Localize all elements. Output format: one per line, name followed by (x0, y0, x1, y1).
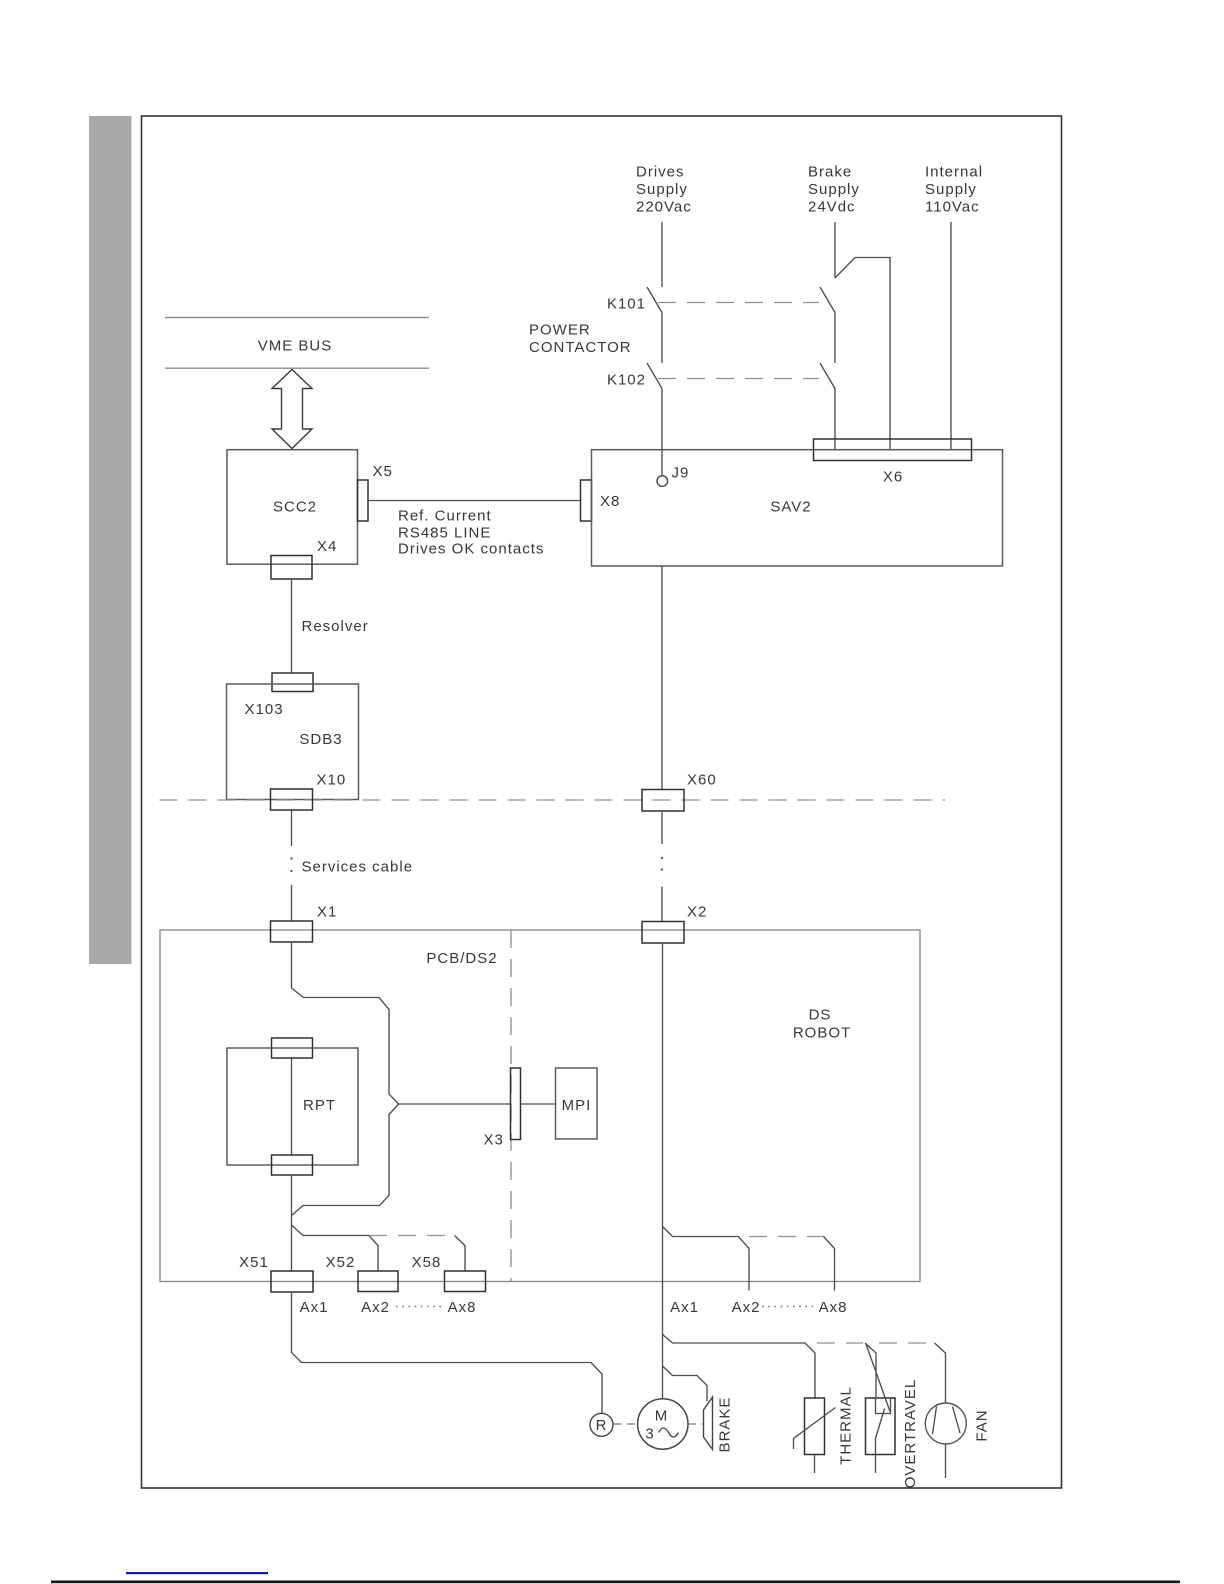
dashed link R to motor (614, 1423, 638, 1425)
wire: branch to fan (935, 1343, 946, 1403)
svg-text:Drives: Drives (636, 164, 685, 181)
svg-text:Ref. Current: Ref. Current (398, 508, 492, 525)
svg-text:X10: X10 (317, 772, 347, 789)
wire: services cable lower to X1 (291, 885, 293, 921)
motor M1 circle (638, 1399, 688, 1449)
connector X3 (511, 1068, 521, 1140)
dashed divider PCB/DS2 (510, 930, 512, 1282)
wire: K101 to K102 (661, 313, 663, 364)
connector X103 (272, 673, 313, 692)
dashed bus to fan (879, 1342, 935, 1344)
wire: K102 to J9 (661, 389, 663, 476)
svg-text:THERMAL: THERMAL (838, 1386, 855, 1465)
svg-text:110Vac: 110Vac (925, 199, 980, 216)
connector X2 (642, 922, 684, 944)
svg-text:Ax2: Ax2 (361, 1299, 390, 1316)
svg-text:3: 3 (645, 1426, 654, 1443)
svg-text:Internal: Internal (925, 164, 983, 181)
svg-text:Resolver: Resolver (302, 618, 369, 635)
overtravel actuator diagonal (866, 1344, 890, 1412)
svg-text:Services cable: Services cable (302, 859, 414, 876)
svg-text:RS485 LINE: RS485 LINE (398, 525, 491, 542)
bus line VME lower (165, 367, 429, 369)
svg-text:Supply: Supply (808, 181, 860, 198)
svg-text:M: M (655, 1408, 669, 1425)
svg-text:X3: X3 (484, 1132, 504, 1149)
connector X4 (271, 556, 312, 580)
svg-text:ROBOT: ROBOT (793, 1025, 851, 1042)
wire: X60 down (661, 811, 663, 844)
contactor contact K101 (brake) (820, 287, 835, 313)
dotted ellipsis left (396, 1306, 441, 1308)
wire: branch to Ax2 right (663, 1227, 750, 1291)
svg-text:X6: X6 (883, 469, 903, 486)
connector X6 bar (814, 439, 972, 461)
wire: brace point to X3 (399, 1103, 511, 1105)
fan circle (925, 1403, 966, 1444)
svg-text:24Vdc: 24Vdc (808, 199, 856, 216)
svg-text:X8: X8 (600, 493, 620, 510)
svg-text:RPT: RPT (303, 1097, 336, 1114)
svg-text:J9: J9 (672, 465, 690, 482)
test point J9 (657, 476, 668, 487)
footer blue rule (126, 1572, 268, 1574)
wire: between brake contacts (834, 313, 836, 364)
dotted ellipsis right (762, 1306, 815, 1308)
connector X51 (271, 1271, 313, 1292)
connector X5 (358, 480, 369, 521)
resolver circle R (590, 1413, 613, 1436)
wire: brake to X6 (834, 389, 836, 451)
left margin grey bar (89, 116, 132, 964)
cabinet separator dashed line (160, 799, 946, 801)
dashed bus X52 to X58 (369, 1235, 454, 1237)
svg-text:MPI: MPI (562, 1097, 592, 1114)
connector X60 (642, 790, 684, 812)
connector RPT bottom (272, 1155, 313, 1175)
wire: below fan (945, 1444, 947, 1478)
wire: brace bundle to X3 (292, 988, 399, 1216)
module SCC2 (227, 450, 358, 565)
svg-text:OVERTRAVEL: OVERTRAVEL (902, 1379, 919, 1488)
wire: inside RPT (291, 1058, 293, 1155)
label Ref. Current / RS485 LINE / Drives OK contacts (398, 508, 544, 558)
wire: X2 down to motor (662, 943, 664, 1399)
wire: brake bypass to X6 (835, 258, 890, 451)
svg-text:X4: X4 (317, 538, 337, 555)
wire: lower to X2 (661, 887, 663, 922)
svg-text:Supply: Supply (636, 181, 688, 198)
module SAV2 (592, 450, 1003, 566)
wire: X5 to X8 (368, 500, 581, 502)
wire break dots left (290, 857, 292, 859)
dashed bus Ax2 to Ax8 right (749, 1236, 824, 1238)
wire: branch to X52 (292, 1225, 379, 1271)
wire break dots right (661, 857, 663, 859)
svg-text:X5: X5 (373, 463, 393, 480)
svg-text:X2: X2 (687, 904, 707, 921)
connector X8 (581, 480, 592, 521)
svg-text:Supply: Supply (925, 181, 977, 198)
footer black rule (51, 1581, 1180, 1584)
svg-text:Ax1: Ax1 (300, 1299, 329, 1316)
wire: brake supply drop (834, 222, 836, 278)
connector X58 (445, 1271, 486, 1292)
contactor contact K101 (drives) (647, 287, 662, 313)
module SDB3 (227, 684, 359, 800)
net label: Brake Supply 24Vdc (808, 164, 860, 216)
wire: X10 down (services cable upper) (291, 810, 293, 846)
svg-text:DS: DS (809, 1007, 832, 1024)
module MPI (556, 1068, 598, 1139)
wire: brake jog (663, 1366, 708, 1401)
connector RPT top (272, 1038, 313, 1058)
double arrow VME to SCC2 (272, 370, 312, 449)
wire: SAV2 to X60 (661, 566, 663, 790)
wire: below thermal (814, 1455, 816, 1474)
svg-text:R: R (596, 1417, 608, 1434)
svg-text:X60: X60 (687, 772, 717, 789)
overtravel blade (876, 1409, 885, 1474)
svg-text:SAV2: SAV2 (770, 499, 811, 516)
svg-text:SDB3: SDB3 (299, 731, 342, 748)
svg-text:X103: X103 (245, 701, 284, 718)
svg-text:X52: X52 (326, 1254, 356, 1271)
svg-text:Ax2: Ax2 (732, 1299, 761, 1316)
wire: X3 to MPI (521, 1103, 556, 1105)
thermal diagonal (794, 1408, 836, 1450)
wire: motor services bus (663, 1335, 816, 1399)
svg-text:X51: X51 (239, 1254, 269, 1271)
dashed link K102 to brake contact (658, 378, 819, 380)
svg-text:Drives OK contacts: Drives OK contacts (398, 541, 544, 558)
wire: drives supply drop to K101 (661, 222, 663, 287)
connector X10 (271, 789, 313, 810)
svg-text:POWER: POWER (529, 322, 591, 339)
wire: internal supply drop to X6 (950, 222, 952, 450)
label DS ROBOT (793, 1007, 851, 1042)
connector X1 (271, 921, 313, 942)
contactor contact K102 (drives) (647, 363, 662, 389)
svg-text:Ax8: Ax8 (448, 1299, 477, 1316)
svg-text:Ax8: Ax8 (819, 1299, 848, 1316)
svg-text:X1: X1 (317, 904, 337, 921)
cabinet box (PCB/DS2 + DS ROBOT) (160, 930, 920, 1282)
brake symbol (704, 1397, 713, 1450)
wire: X1 down (291, 942, 293, 988)
bus line VME upper (165, 317, 429, 319)
label POWER CONTACTOR (529, 322, 632, 357)
svg-text:K101: K101 (607, 296, 646, 313)
svg-text:220Vac: 220Vac (636, 199, 692, 216)
connector X52 (358, 1271, 398, 1292)
wire: RPT bottom to X51 (291, 1175, 293, 1271)
svg-text:BRAKE: BRAKE (717, 1397, 734, 1453)
fan blades (933, 1407, 961, 1435)
wire: branch to X58 (455, 1236, 466, 1272)
svg-text:PCB/DS2: PCB/DS2 (426, 950, 497, 967)
dashed bus to overtravel (817, 1342, 863, 1344)
svg-text:VME BUS: VME BUS (258, 338, 333, 355)
svg-text:SCC2: SCC2 (273, 499, 317, 516)
sine symbol (659, 1428, 679, 1437)
net label: Internal Supply 110Vac (925, 164, 983, 216)
wire: branch to Ax8 right (824, 1237, 835, 1291)
dashed link K101 to brake contact (658, 302, 819, 304)
contactor contact K102 (brake) (820, 363, 835, 389)
thermal sensor body (805, 1398, 825, 1455)
module RPT (227, 1048, 358, 1165)
wire: branch to overtravel (865, 1343, 876, 1398)
svg-text:X58: X58 (412, 1254, 442, 1271)
dashed link motor to brake (688, 1423, 703, 1425)
net label: Drives Supply 220Vac (636, 164, 692, 216)
wire: X4 to X103 (resolver) (291, 579, 293, 673)
page frame (142, 116, 1062, 1488)
svg-text:FAN: FAN (974, 1409, 991, 1441)
overtravel inner box (876, 1398, 891, 1414)
svg-text:K102: K102 (607, 372, 646, 389)
overtravel switch body (866, 1398, 896, 1455)
wire: X51 axis1 cable to resolver R (292, 1292, 603, 1413)
svg-text:Brake: Brake (808, 164, 852, 181)
svg-text:CONTACTOR: CONTACTOR (529, 339, 632, 356)
svg-text:Ax1: Ax1 (670, 1299, 699, 1316)
